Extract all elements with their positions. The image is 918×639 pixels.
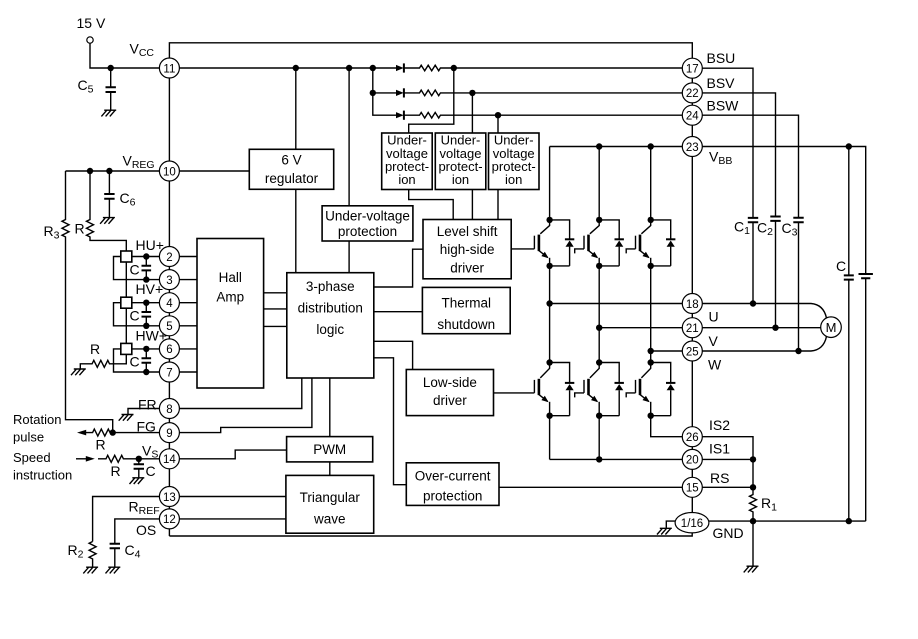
svg-text:M: M — [826, 320, 837, 335]
capacitor C2 bootstrap — [770, 217, 780, 328]
block Over-current protection — [406, 463, 499, 506]
wire leg V high collector drop — [598, 147, 600, 220]
wire Q5 emitter to IS1 — [598, 416, 600, 460]
svg-text:14: 14 — [163, 454, 176, 466]
node junction VCC under-voltage tap — [346, 65, 352, 71]
svg-text:25: 25 — [686, 346, 699, 358]
svg-text:12: 12 — [163, 514, 176, 526]
wire V to motor — [702, 327, 821, 329]
node junction C2 to V — [772, 325, 778, 331]
wire phase V line — [599, 327, 682, 329]
wire under-voltage 1 to level shift — [409, 190, 454, 220]
wire pin 10 to 6V regulator — [179, 170, 249, 172]
block Triangular wave — [286, 475, 374, 533]
wire PWM to Triangular wave — [329, 462, 331, 476]
wire hall bias HU to HV — [125, 262, 127, 297]
pin 1/16 GND oval — [675, 513, 709, 533]
wire pin 13 RREF to Triangular wave — [179, 496, 286, 498]
wire IC outline top border — [169, 43, 692, 58]
node junction row1 feed — [370, 65, 376, 71]
transistor Q6 low-side W IGBT — [636, 359, 654, 419]
block Low-side driver — [406, 370, 493, 416]
svg-text:Level shift: Level shift — [437, 224, 498, 239]
svg-text:pulse: pulse — [13, 430, 44, 445]
svg-text:15 V: 15 V — [77, 15, 106, 31]
svg-text:3: 3 — [166, 275, 172, 287]
resistor R1 sense — [750, 487, 757, 521]
wire pin 7 to Hall Amp — [179, 371, 197, 373]
svg-text:18: 18 — [686, 299, 699, 311]
arrow speed instruction input — [76, 456, 95, 462]
wire Hall Amp to logic signal 3 — [264, 325, 287, 327]
wire Q5 gate lead — [575, 393, 584, 398]
block Hall Amp — [197, 239, 264, 389]
svg-text:11: 11 — [163, 63, 175, 75]
wire VBB pin 23 to reservoir caps — [702, 147, 865, 275]
pin 2 HU+ — [159, 247, 179, 267]
svg-text:R: R — [111, 463, 121, 479]
wire under-voltage 2 to level shift — [471, 190, 473, 220]
svg-text:1/16: 1/16 — [681, 518, 703, 530]
wire IC outline bottom border — [169, 533, 692, 536]
resistor R hall bias bottom to ground — [80, 354, 126, 368]
pin 13 RREF — [159, 487, 179, 507]
wire IS1 line to pin 20 — [550, 458, 683, 460]
svg-text:13: 13 — [163, 492, 176, 504]
pin 21 V — [682, 318, 702, 338]
pin 25 W — [682, 341, 702, 361]
node junction U leg — [546, 300, 552, 306]
svg-text:IS2: IS2 — [709, 417, 730, 433]
wire OS pin 12 to C4 — [115, 519, 160, 544]
transistor Q1 high-side U IGBT — [534, 217, 552, 269]
pin 14 VS — [159, 449, 179, 469]
resistor R FG output — [84, 429, 110, 436]
block under-voltage protection wide — [322, 206, 413, 241]
wire 3-phase logic to thermal shutdown — [374, 311, 423, 313]
svg-text:20: 20 — [686, 455, 699, 467]
svg-text:23: 23 — [686, 142, 699, 154]
node junction row1 to UV1 — [451, 65, 457, 71]
svg-text:high-side: high-side — [440, 242, 495, 257]
diode D6 freewheel high W — [651, 220, 676, 266]
node junction row2 to UV2 — [469, 90, 475, 96]
wire pin 8 FR to 3-phase logic — [179, 378, 301, 409]
wire BSU pin 17 to C1 — [702, 68, 753, 218]
capacitor C hall HV — [142, 303, 152, 326]
svg-text:logic: logic — [316, 322, 344, 337]
svg-text:Rotation: Rotation — [13, 412, 61, 427]
wire row2 to under-voltage 2 — [471, 93, 473, 133]
wire 3-phase logic to low-side driver — [374, 341, 413, 369]
svg-text:6: 6 — [166, 344, 172, 356]
svg-text:BSU: BSU — [707, 50, 736, 66]
svg-text:distribution: distribution — [298, 301, 363, 316]
pin 18 U — [682, 294, 702, 314]
svg-text:C: C — [130, 308, 140, 324]
ground hall bias — [71, 369, 86, 375]
node junction IS1 external — [750, 456, 756, 462]
svg-text:C: C — [836, 258, 846, 274]
node junction R bias tap — [87, 168, 93, 174]
wire Q3 gate lead — [626, 249, 635, 254]
wire phase W line — [651, 350, 683, 352]
wire pin 3 to Hall Amp — [179, 279, 197, 281]
node junction row2 feed — [370, 90, 376, 96]
svg-text:3-phase: 3-phase — [306, 279, 355, 294]
wire leg W mid — [650, 266, 652, 363]
resistor bootstrap W — [404, 112, 682, 118]
node junction C6 tap — [106, 168, 112, 174]
svg-text:21: 21 — [686, 323, 699, 335]
wire IC outline left border segments — [168, 78, 170, 536]
svg-text:shutdown: shutdown — [437, 317, 495, 332]
capacitor C3 bootstrap — [793, 218, 803, 351]
wire row1 to under-voltage 1 — [409, 68, 454, 133]
node junction VBB leg V — [596, 143, 602, 149]
wire pin 2 to Hall Amp — [179, 256, 197, 258]
ground GND pin — [657, 528, 672, 534]
hall element HU square — [121, 251, 132, 262]
wire hall HU output- loop to pin 3 — [114, 257, 160, 280]
svg-text:U: U — [709, 309, 719, 325]
wire hall HU output+ to pin 2 — [132, 256, 160, 258]
wire VBB rail to bridge — [550, 146, 683, 148]
svg-text:Speed: Speed — [13, 450, 51, 465]
wire Hall Amp to logic signal 1 — [264, 292, 287, 294]
node junction HU- cap — [143, 276, 149, 282]
diode D1 bootstrap U — [396, 63, 404, 72]
diode D2 bootstrap V — [396, 88, 404, 97]
svg-text:driver: driver — [433, 393, 467, 408]
wire hall HW output+ to pin 6 — [132, 348, 160, 350]
block 3-phase distribution logic — [287, 273, 374, 378]
pin 15 RS — [682, 477, 702, 497]
svg-text:instruction: instruction — [13, 468, 72, 483]
svg-text:GND: GND — [713, 525, 744, 541]
wire under-voltage protection to 3-phase logic — [348, 241, 350, 273]
resistor bootstrap U — [404, 65, 682, 71]
svg-text:C: C — [130, 261, 140, 277]
node junction VS cap — [136, 456, 142, 462]
svg-text:Low-side: Low-side — [423, 375, 477, 390]
hall element HW square — [121, 343, 132, 354]
wire pin 5 to Hall Amp — [179, 325, 197, 327]
wire Q4 emitter to IS1 — [549, 416, 551, 460]
svg-text:V: V — [709, 333, 719, 349]
arrow rotation pulse output — [77, 430, 86, 436]
pin 23 VBB — [682, 137, 702, 157]
wire hall HV output+ to pin 4 — [132, 302, 160, 304]
node junction VBB leg W — [648, 143, 654, 149]
pin 12 OS — [159, 509, 179, 529]
wire pin 12 OS to Triangular wave — [179, 518, 286, 520]
block Thermal shutdown — [422, 287, 510, 333]
svg-text:ion: ion — [398, 172, 415, 187]
pin 17 BSU — [682, 58, 702, 78]
hall element HV square — [121, 297, 132, 308]
svg-text:ion: ion — [505, 172, 522, 187]
node junction V leg — [596, 325, 602, 331]
wire feed row 2 and 3 — [373, 68, 396, 115]
node junction HV- cap — [143, 323, 149, 329]
wire leg W high collector drop — [650, 147, 652, 220]
svg-text:R: R — [90, 341, 100, 357]
wire VCC rail pin 11 to diode row 1 — [179, 67, 396, 69]
wire row 2 stub — [373, 92, 396, 94]
svg-text:17: 17 — [686, 64, 699, 76]
svg-text:HV+: HV+ — [136, 281, 164, 297]
svg-text:HW+: HW+ — [136, 328, 168, 344]
svg-text:FR: FR — [138, 397, 157, 413]
svg-text:8: 8 — [166, 404, 172, 416]
wire IS2 pin 26 external — [702, 437, 753, 460]
svg-text:4: 4 — [166, 298, 173, 310]
node junction RS external — [750, 484, 756, 490]
wire RS pin 15 external to R1 — [702, 486, 753, 488]
svg-text:C: C — [146, 463, 156, 479]
svg-text:wave: wave — [313, 512, 346, 527]
wire VCC to 6V regulator — [295, 68, 297, 149]
svg-text:OS: OS — [136, 522, 156, 538]
svg-text:ion: ion — [452, 172, 469, 187]
pin 26 IS2 — [682, 427, 702, 447]
svg-text:Over-current: Over-current — [415, 468, 491, 483]
ground R1 earth — [744, 566, 759, 572]
node junction W leg — [648, 348, 654, 354]
wire Q2 gate lead — [575, 249, 584, 254]
node junction C3 to W — [795, 348, 801, 354]
transistor Q3 high-side W IGBT — [636, 217, 654, 269]
wire pin 9 FG from 3-phase logic — [179, 378, 312, 433]
diode D4 freewheel high U — [550, 220, 575, 266]
wire pin 6 to Hall Amp — [179, 348, 197, 350]
wire IS1 pin 20 external — [702, 458, 753, 460]
wire leg U mid — [549, 266, 551, 363]
svg-text:PWM: PWM — [313, 442, 346, 457]
wire U to motor — [702, 304, 826, 319]
svg-text:Under-voltage: Under-voltage — [325, 209, 410, 224]
node junction VCC 6V regulator tap — [293, 65, 299, 71]
node junction R1 to GND rail — [750, 518, 756, 524]
wire VREG rail from pin 10 — [66, 170, 160, 172]
pin 7 HW- — [159, 362, 179, 382]
svg-text:10: 10 — [163, 166, 176, 178]
pin 20 IS1 — [682, 449, 702, 469]
wire leg U high collector drop — [549, 147, 551, 220]
svg-text:protection: protection — [338, 224, 397, 239]
node junction C5 tap — [108, 65, 114, 71]
pin 22 BSV — [682, 83, 702, 103]
wire hall HV output- loop to pin 5 — [114, 303, 160, 326]
svg-text:24: 24 — [686, 111, 699, 123]
wire Q6 gate lead — [626, 393, 635, 398]
wire 3-phase logic to level shift driver — [374, 249, 423, 287]
transistor Q4 low-side U IGBT — [534, 359, 552, 419]
svg-text:W: W — [708, 357, 722, 373]
pin 9 FG — [159, 423, 179, 443]
node junction HW- cap — [143, 369, 149, 375]
wire 3-phase logic to PWM — [329, 378, 331, 437]
wire phase U line — [550, 303, 683, 305]
ground R2 — [83, 567, 98, 573]
wire VCC to under-voltage protection — [348, 68, 350, 206]
svg-text:protection: protection — [423, 488, 482, 503]
block Level shift high-side driver — [423, 220, 511, 279]
block under-voltage protection 3 — [489, 133, 540, 190]
wire IC outline right border segments — [691, 78, 693, 512]
wire pin 14 VS to PWM — [179, 450, 286, 459]
capacitor C VS — [134, 459, 144, 478]
wire RREF pin 13 to R2 — [93, 497, 160, 542]
svg-text:IS1: IS1 — [709, 441, 730, 457]
node junction HW+ cap — [143, 346, 149, 352]
node junction GND caps — [846, 518, 852, 524]
wire hall bias HV to HW — [125, 308, 127, 343]
capacitor C6 — [104, 171, 114, 217]
svg-text:Amp: Amp — [216, 290, 244, 305]
block PWM — [287, 437, 373, 462]
ground FR — [119, 415, 134, 421]
capacitor C hall HU — [142, 257, 152, 280]
wire low-side driver to Q4 gate — [494, 392, 535, 394]
wire FG line pin 9 to resistor — [110, 432, 159, 434]
wire IS sense drop — [752, 459, 754, 487]
svg-text:6 V: 6 V — [281, 153, 301, 168]
pin 4 HV+ — [159, 293, 179, 313]
diode D3 bootstrap W — [396, 111, 404, 120]
capacitor electrolytic reservoir — [859, 274, 873, 521]
svg-text:C: C — [130, 354, 140, 370]
diode D8 freewheel low V — [599, 363, 624, 416]
svg-text:Triangular: Triangular — [300, 490, 361, 505]
wire 15V to VCC pin 11 — [90, 43, 159, 68]
capacitor C hall HW — [142, 349, 152, 372]
wire pin 4 to Hall Amp — [179, 302, 197, 304]
svg-text:26: 26 — [686, 432, 699, 444]
wire GND drop to earth — [752, 521, 754, 566]
capacitor C4 — [110, 544, 120, 567]
svg-text:Thermal: Thermal — [442, 296, 492, 311]
pin 3 HU- — [159, 270, 179, 290]
motor M — [821, 317, 842, 338]
resistor R VS input — [98, 455, 159, 462]
capacitor C5 — [106, 68, 116, 110]
node junction IS1 — [596, 456, 602, 462]
ground below C6 — [100, 218, 115, 224]
resistor bootstrap V — [404, 90, 682, 96]
block 6 V regulator — [249, 149, 333, 189]
wire FR pin 8 to ground — [128, 409, 159, 415]
capacitor C reservoir — [844, 147, 854, 522]
wire GND rail — [709, 520, 866, 522]
wire GND pin to chassis — [666, 521, 675, 528]
resistor R hall bias top — [87, 171, 127, 251]
svg-text:driver: driver — [450, 261, 484, 276]
wire over-current protection to pin 15 RS — [499, 486, 682, 488]
transistor Q2 high-side V IGBT — [584, 217, 602, 269]
block under-voltage protection 2 — [435, 133, 486, 190]
pin 24 BSW — [682, 105, 702, 125]
wire row3 to under-voltage 3 — [497, 115, 499, 133]
svg-text:R: R — [96, 437, 106, 453]
node junction C1 to U — [750, 300, 756, 306]
svg-text:2: 2 — [166, 252, 172, 264]
svg-text:9: 9 — [166, 428, 172, 440]
node junction HU+ cap — [143, 253, 149, 259]
wire hall HW output- loop to pin 7 — [114, 349, 160, 372]
wire Hall Amp to logic signal 2 — [264, 308, 287, 310]
svg-text:BSV: BSV — [707, 75, 736, 91]
resistor R2 — [89, 542, 96, 567]
ground C4 — [106, 567, 121, 573]
svg-text:5: 5 — [166, 321, 172, 333]
block under-voltage protection 1 — [382, 133, 433, 190]
wire 3-phase logic to over-current protection — [374, 358, 407, 485]
pin 11 VCC — [159, 58, 179, 78]
wire Q6 emitter IS2 to pin 26 — [651, 416, 683, 437]
svg-text:BSW: BSW — [707, 98, 740, 114]
svg-text:7: 7 — [166, 367, 172, 379]
pin 10 VREG — [159, 161, 179, 181]
pin 5 HV- — [159, 316, 179, 336]
svg-text:R: R — [75, 221, 85, 237]
wire BSV pin 22 to C2 — [702, 93, 775, 217]
diode D7 freewheel low U — [550, 363, 575, 416]
svg-text:22: 22 — [686, 88, 699, 100]
wire under-voltage 3 to level shift — [497, 190, 499, 220]
node junction row3 to UV3 — [495, 112, 501, 118]
ground below C5 — [101, 110, 116, 116]
diode D5 freewheel high V — [599, 220, 624, 266]
pin 6 HW+ — [159, 339, 179, 359]
resistor R3 pull-up — [62, 171, 113, 430]
svg-text:regulator: regulator — [265, 171, 319, 186]
wire BSW pin 24 to C3 — [702, 115, 798, 218]
terminal 15V open circle — [87, 37, 93, 43]
svg-text:RS: RS — [710, 470, 729, 486]
node junction VBB cap tap — [846, 143, 852, 149]
wire leg V mid — [598, 266, 600, 363]
pin 8 FR — [159, 399, 179, 419]
wire level shift to Q1 gate — [511, 248, 534, 250]
svg-text:Hall: Hall — [219, 270, 242, 285]
diode D9 freewheel low W — [651, 363, 676, 416]
wire W to motor — [702, 337, 826, 352]
node junction FG pull-up — [110, 429, 116, 435]
wire 6V regulator to 3-phase logic — [295, 189, 297, 272]
transistor Q5 low-side V IGBT — [584, 359, 602, 419]
svg-text:HU+: HU+ — [136, 237, 164, 253]
svg-text:15: 15 — [686, 483, 699, 495]
node junction HV+ cap — [143, 300, 149, 306]
capacitor C1 bootstrap — [748, 218, 758, 304]
ground VS cap — [130, 478, 145, 484]
